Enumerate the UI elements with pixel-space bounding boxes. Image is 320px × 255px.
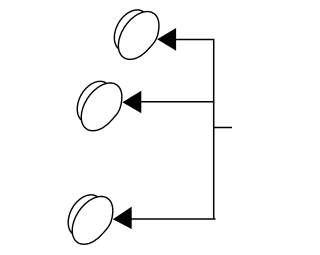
disk D2 (middle) xyxy=(77,81,121,130)
disk D3 (bottom) xyxy=(68,195,112,244)
wire: bottom branch xyxy=(131,218,216,220)
wire: middle branch xyxy=(140,101,213,103)
arrowhead A1 xyxy=(157,28,176,51)
wire: vertical bus xyxy=(213,40,215,220)
wire: right stub xyxy=(214,127,232,129)
arrowhead A3 xyxy=(113,207,132,230)
wire: top branch xyxy=(175,39,214,41)
arrowhead A2 xyxy=(122,91,141,113)
disk D1 (top) xyxy=(114,10,158,59)
